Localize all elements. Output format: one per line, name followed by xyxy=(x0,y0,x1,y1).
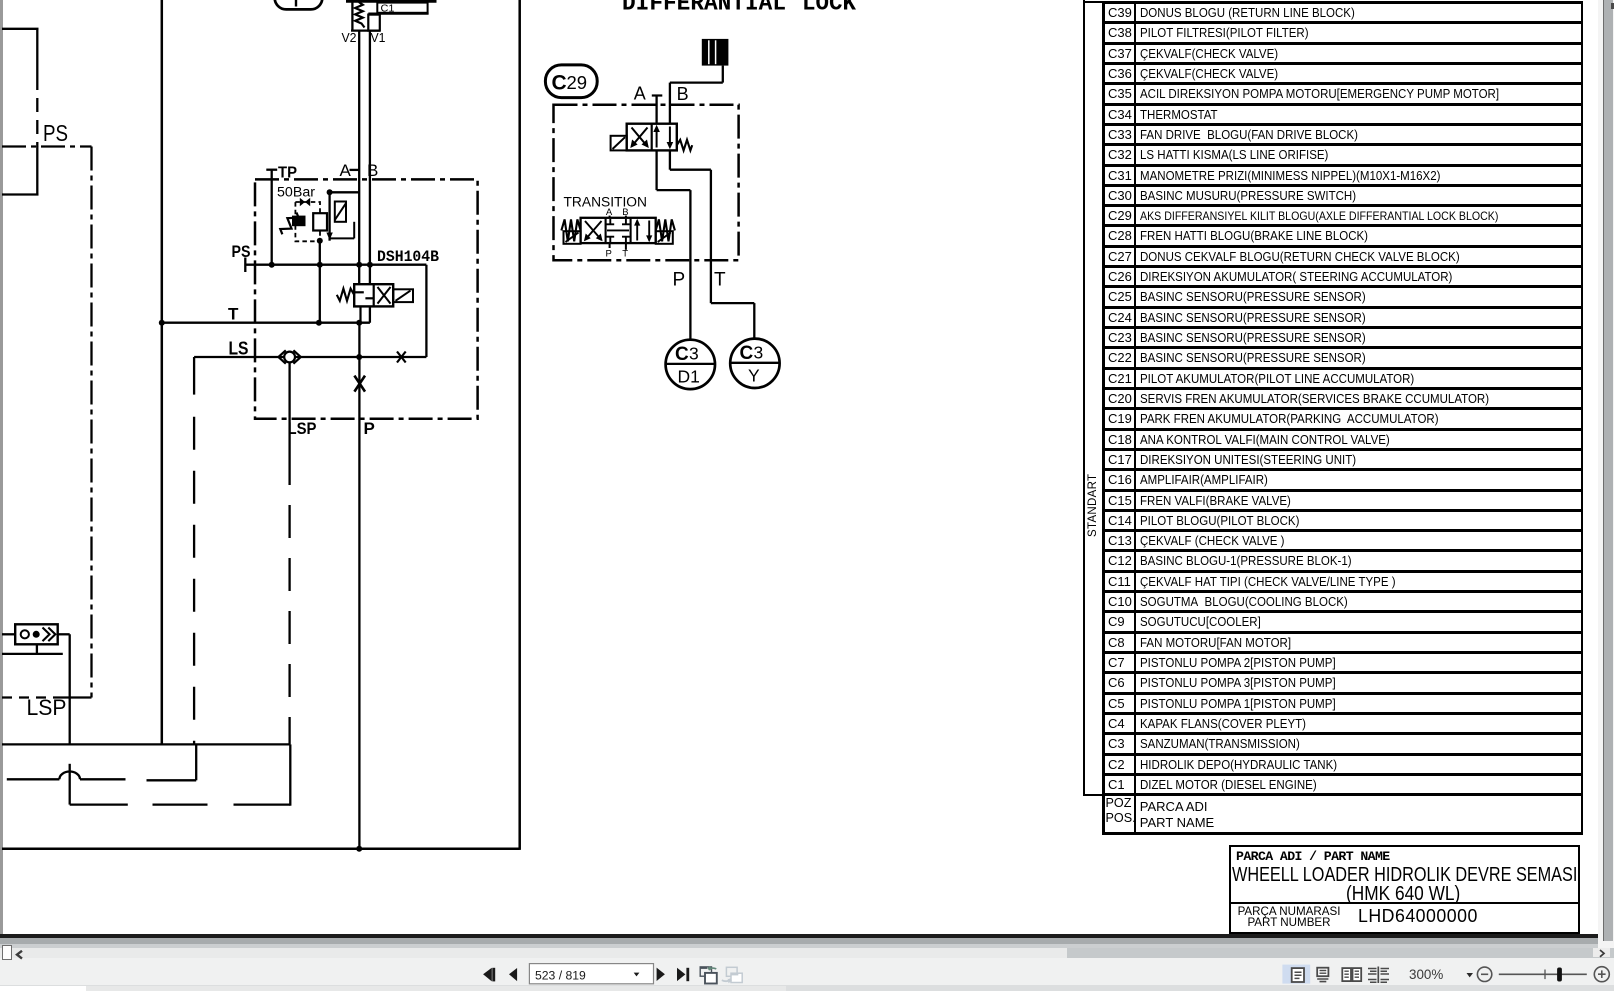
check valve seat circle xyxy=(21,630,29,638)
solenoid valve left position blocked ports xyxy=(355,292,375,298)
solenoid valve right position crossed arrow xyxy=(378,287,391,304)
node junction dot LS/P-line xyxy=(356,354,362,360)
wire: relief drain vertical to T line xyxy=(319,241,321,323)
svg-text:V2: V2 xyxy=(342,30,357,45)
wire: C1 bottom edge xyxy=(351,29,380,31)
node PS: pilot dash-dot line from left edge xyxy=(2,145,92,147)
relief valve sensing vertical with arrow xyxy=(326,192,332,240)
component C1 spring xyxy=(355,2,364,28)
node junction dot relief drain top xyxy=(317,238,323,244)
valve 4/3 right position straight arrows xyxy=(634,219,652,242)
wire: shuttle valve output to the right then down xyxy=(58,634,70,744)
wire: lower distribution horizontal y744 xyxy=(2,743,290,745)
svg-text:TP: TP xyxy=(278,165,297,182)
svg-text:V1: V1 xyxy=(371,30,386,45)
node junction dot T line / main vertical xyxy=(159,320,165,326)
wire: shuttle valve bottom port tick xyxy=(36,644,38,654)
wire: breather vertical through line hop xyxy=(69,764,71,805)
valve 4/3 spring right xyxy=(656,219,675,241)
block DSH104B boundary (dash-dot) xyxy=(255,179,478,418)
left page edge strip xyxy=(0,0,3,934)
check valve: shuttle/check valve body xyxy=(15,624,58,644)
svg-text:B: B xyxy=(622,207,628,218)
check valve chevron 1 xyxy=(43,628,50,642)
wire: B line vertical from V1 to T line xyxy=(369,31,371,323)
stadium inner glyph remnant xyxy=(295,0,297,7)
relief valve spring xyxy=(278,210,300,237)
wire: LSP vertical below orifice xyxy=(288,362,290,744)
wire: PS distribution horizontal xyxy=(245,264,426,266)
svg-text:LS: LS xyxy=(229,339,249,359)
valve 4/3 centre position closed ports xyxy=(606,219,629,242)
wire: PS pilot dash-dot vertical to LSP line xyxy=(90,147,92,698)
wire: line hop arc xyxy=(59,771,80,779)
wire: plug tick A port xyxy=(652,94,663,96)
svg-text:3: 3 xyxy=(754,343,764,363)
plug X on P line xyxy=(354,376,365,392)
orifice with circle on LS line xyxy=(278,350,300,363)
wire: horizontal under shuttle valve xyxy=(2,653,63,655)
valve 4/3 solenoid right xyxy=(656,231,673,244)
svg-text:T: T xyxy=(622,249,628,260)
valve 4/3 solenoid left xyxy=(564,231,581,244)
svg-text:LSP: LSP xyxy=(288,419,317,438)
node junction dot PS/relief-drain xyxy=(317,262,323,268)
node junction dot on tank bus xyxy=(356,846,362,852)
svg-text:A: A xyxy=(606,207,613,218)
svg-text:C: C xyxy=(552,72,567,95)
solenoid valve solenoid box (right) xyxy=(393,289,413,302)
svg-text:D1: D1 xyxy=(678,367,700,387)
plug X on LS line right xyxy=(397,352,406,363)
wire: tank bottom dashed segment 2 xyxy=(234,803,291,805)
wire: tank bus bottom horizontal xyxy=(2,847,520,850)
wire: A port vertical into valve xyxy=(655,96,657,124)
wire: tank stub vertical x290 xyxy=(289,744,291,805)
wire: plug to B port xyxy=(670,66,723,124)
wire: PS port tick xyxy=(244,258,246,273)
svg-text:PS: PS xyxy=(43,120,68,146)
solenoid valve position divider xyxy=(373,284,375,306)
component C1 small box xyxy=(368,15,380,31)
node junction dot TP/PS xyxy=(269,262,275,268)
wire: tank bottom dashed segment 1 xyxy=(153,803,208,805)
svg-text:P: P xyxy=(364,419,375,438)
bottom chrome bands xyxy=(0,934,1614,938)
orifice (bowtie) on pilot line xyxy=(300,198,310,206)
node junction dot T line / P vertical xyxy=(356,320,362,326)
wire: tank bottom solid segment xyxy=(70,803,128,805)
node junction dot PS/A-line xyxy=(356,262,362,268)
label C29 stadium xyxy=(545,65,597,98)
wire: valve bottom port to T line xyxy=(359,306,361,322)
bottom-left page icon + chevron xyxy=(2,945,12,960)
node junction dot T line / relief drain xyxy=(316,320,322,326)
svg-text:DSH104B: DSH104B xyxy=(377,248,439,266)
solenoid valve spring (left) xyxy=(337,289,354,301)
wire: top-left port box upper horizontal xyxy=(2,28,39,30)
block C29 boundary (dash-dot) xyxy=(554,105,739,261)
relief valve pilot element (parallelogram with arrow) xyxy=(335,202,346,222)
right vertical scrollbar xyxy=(1598,0,1614,948)
svg-text:LSP: LSP xyxy=(27,695,67,720)
svg-text:50Bar: 50Bar xyxy=(277,185,316,200)
valve 4/3 body xyxy=(581,218,656,243)
check valve chevron 2 xyxy=(48,628,55,642)
right-arrow button of h-scrollbar xyxy=(1593,948,1610,957)
wire: tank stub vertical x196 xyxy=(195,744,197,780)
node junction dot PS/B-line xyxy=(367,262,373,268)
svg-text:B: B xyxy=(367,161,378,180)
valve 4/3 divider 2 xyxy=(630,218,632,243)
solenoid valve DSH104B body xyxy=(354,284,393,306)
svg-text:3: 3 xyxy=(689,344,699,364)
relief valve body square xyxy=(313,213,327,230)
zoom cluster xyxy=(1278,958,1614,990)
node junction dot A branch xyxy=(327,189,333,195)
valve 4/2 right position straight arrows xyxy=(653,125,673,149)
wire: lower horizontal of top-left port box xyxy=(2,193,39,195)
wire: A line from valve to P riser xyxy=(657,150,691,340)
svg-text:C: C xyxy=(740,343,754,364)
wire: A branch horizontal into relief valve xyxy=(330,191,360,193)
component circle C3/Y xyxy=(730,339,779,388)
wire: LS left dashed vertical down xyxy=(193,357,195,744)
svg-text:Y: Y xyxy=(748,366,760,386)
valve 4/2 divider xyxy=(651,124,653,151)
wire: tank line with hop (left part) xyxy=(7,778,60,780)
valve 4/2 spring (right) xyxy=(677,140,692,151)
valve 4/2 body xyxy=(627,124,677,151)
connector plug (filled) xyxy=(702,39,729,66)
relief valve pilot dashed box xyxy=(295,202,320,241)
svg-text:T: T xyxy=(228,305,239,324)
wire: C1 lower horizontal link xyxy=(368,13,428,15)
wire: LSP dash-dot horizontal at left edge xyxy=(2,696,92,698)
svg-text:C: C xyxy=(675,344,689,365)
svg-text:B: B xyxy=(677,84,689,104)
wire: LS horizontal line xyxy=(194,356,426,358)
wire: plug tick between A and B xyxy=(350,169,360,171)
wire: DSH valve box right edge xyxy=(425,265,427,357)
label box C1 xyxy=(377,3,427,13)
label C29 text xyxy=(552,72,588,95)
wire: T jog to C3-Y riser xyxy=(711,303,754,339)
wire: T return line horizontal xyxy=(162,322,370,324)
page nav cluster xyxy=(470,958,760,990)
svg-text:P: P xyxy=(606,249,612,260)
svg-text:LOCK: LOCK xyxy=(802,0,856,17)
wire: thick top bar of cut component xyxy=(346,0,437,3)
wire: TP test point tick xyxy=(266,169,277,171)
svg-text:P: P xyxy=(673,270,686,291)
component circle C3/D1 xyxy=(666,340,715,389)
wire: main supply vertical line xyxy=(161,0,164,744)
wire: A line from V2 down to P outlet (full vertical) xyxy=(358,31,360,292)
wire: tank stub horizontal y780 xyxy=(147,779,197,781)
valve 4/2 solenoid (left) xyxy=(611,136,627,151)
wire: B line through valve down and jog to T xyxy=(670,150,711,303)
svg-text:PS: PS xyxy=(232,242,251,261)
wire: line into shuttle valve from left edge xyxy=(2,633,15,635)
relief valve filled element xyxy=(292,216,306,227)
valve 4/3 divider 1 xyxy=(605,218,607,243)
svg-text:T: T xyxy=(714,270,726,291)
wire: long right vertical of left schematic xyxy=(518,0,521,850)
valve 4/2 left position crossed arrows xyxy=(630,128,649,149)
wire: TP vertical to PS line xyxy=(271,170,273,265)
stadium label (cut at top) xyxy=(275,0,323,9)
svg-text:DIFFERANTIAL: DIFFERANTIAL xyxy=(622,0,786,17)
check valve ball (filled) xyxy=(33,631,40,638)
wire: tank line with hop (right part) xyxy=(80,778,126,780)
valve 4/3 spring left xyxy=(561,219,580,241)
valve 4/3 left position crossed arrows xyxy=(584,221,603,241)
component C1 left border xyxy=(351,1,353,30)
wire: relief valve right-side link xyxy=(330,222,355,239)
wire: top-left port box vertical (solid then dashed) xyxy=(36,29,38,195)
valve 4/3 port ticks A B P T xyxy=(610,216,626,250)
svg-text:A: A xyxy=(634,84,646,104)
svg-text:29: 29 xyxy=(567,72,588,93)
